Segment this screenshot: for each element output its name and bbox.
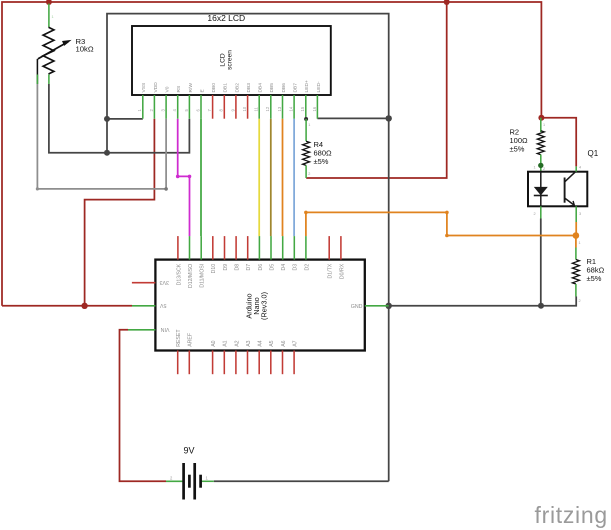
svg-text:A1: A1 [223,340,229,346]
wire battery negative to GND loop [214,480,389,482]
LCD pin 10 DB3 leg [247,95,249,119]
svg-text:D12/MISO: D12/MISO [188,264,194,288]
potentiometer R3 bottom leg pin2 [48,74,50,84]
node 5V junction VDD branch [81,303,87,309]
potentiometer R3 wiper arrowhead [62,40,72,46]
wire Q1 diode cathode to GND row [540,219,542,306]
svg-text:D2: D2 [304,264,310,271]
Arduino pin D11/MOSI leg [200,236,202,260]
svg-text:LED+: LED+ [304,80,310,93]
svg-text:11: 11 [254,106,259,111]
transistor Q1 outline [528,172,587,207]
Arduino pin VIN leg [128,329,155,331]
svg-text:LED-: LED- [316,81,322,93]
Arduino pin D2 leg [305,236,307,260]
wire LCD DB6 to Arduino D4 (orange) [282,119,284,236]
Arduino pin A6 leg (unconnected) [282,351,284,375]
node GND junction LED- [386,115,392,121]
svg-text:GND: GND [351,304,363,310]
wire LCD DB7 to Arduino D3 (blue) [293,119,295,236]
LCD pin 15 LED+ leg [305,95,307,119]
wire pot wiper to LCD V0 [37,84,166,189]
svg-text:1: 1 [52,15,54,19]
svg-text:14: 14 [289,106,294,111]
svg-text:D9: D9 [223,264,229,271]
svg-text:fritzing: fritzing [535,502,608,528]
LCD pin 1 VSS leg [142,95,144,119]
svg-text:A4: A4 [258,340,264,346]
resistor R1 top lead [575,248,577,260]
svg-text:10kΩ: 10kΩ [76,45,94,54]
svg-text:2: 2 [579,299,581,303]
Q1 collector leg [575,166,577,171]
Arduino pin A4 leg (unconnected) [258,351,260,375]
node GND junction diode cathode [538,303,544,309]
wire 5V rail top and left side [2,2,541,306]
svg-text:1: 1 [579,241,581,245]
LCD pin 5 R/W leg [188,95,190,119]
svg-text:A7: A7 [293,340,299,346]
svg-text:DB1: DB1 [223,83,229,93]
LCD pin 3 V0 leg [165,95,167,119]
battery positive leg [166,480,184,482]
resistor R2 bottom lead [540,155,542,172]
node 5V junction at potentiometer [46,0,52,5]
LCD pin 9 DB2 leg [235,95,237,119]
Arduino pin RESET leg (unconnected) [177,351,179,375]
Arduino pin A1 leg (unconnected) [223,351,225,375]
svg-text:1: 1 [308,123,310,127]
Arduino pin A7 leg (unconnected) [293,351,295,375]
svg-text:15: 15 [300,106,305,111]
wire LCD R/W and pot pin2 to GND loop [49,84,190,153]
svg-text:±5%: ±5% [314,157,329,166]
Arduino pin A0 leg (unconnected) [212,351,214,375]
svg-text:RESET: RESET [176,329,182,347]
svg-text:±5%: ±5% [587,274,602,283]
LCD pin 14 DB7 leg [293,95,295,119]
wire LCD E to Arduino D11/MOSI [200,119,202,236]
svg-text:DB5: DB5 [269,83,275,93]
wire orange node to R1 top [575,236,577,248]
Arduino pin GND leg [365,305,389,307]
node LED+ to R4 junction [304,117,308,121]
battery negative leg [201,480,214,482]
svg-text:DB7: DB7 [293,83,299,93]
Arduino pin D8 leg [235,236,237,260]
svg-text:D0/RX: D0/RX [339,263,345,279]
resistor R4 top lead [305,119,307,141]
node R2 bottom wire end [538,163,543,168]
wire Arduino D2 to Q1 emitter / R1 [306,212,576,236]
wire LCD LED- to GND loop [317,117,388,119]
svg-text:DB6: DB6 [281,83,287,93]
resistor R2 zigzag body [537,131,544,155]
svg-text:4: 4 [579,166,581,170]
resistor R4 zigzag body [303,141,310,165]
wire R4 bottom to 5V rail [306,2,447,178]
node 5V junction R2/Q1 [538,115,544,121]
node orange junction at R1/Q1 [573,232,580,239]
svg-text:1: 1 [534,166,536,170]
svg-text:RS: RS [176,85,182,93]
resistor R1 bottom lead [575,284,577,297]
wire Q1 emitter down to orange node [575,222,577,236]
node RS wire bend 1 [176,175,180,179]
potentiometer R3 top leg [48,4,50,28]
Arduino pin D1/TX leg [328,236,330,260]
wire 5V to Q1 collector [541,118,576,167]
resistor R2 top lead [540,118,542,132]
svg-text:D3: D3 [293,264,299,271]
svg-text:D6: D6 [258,264,264,271]
Q1 transistor emitter arrowhead [570,201,575,206]
svg-text:2: 2 [543,167,545,171]
battery short plate 2 [199,475,202,488]
svg-text:D8: D8 [235,264,241,271]
svg-text:3V3: 3V3 [160,279,169,285]
Arduino pin D10 leg [212,236,214,260]
svg-text:12: 12 [265,106,270,111]
svg-text:D10: D10 [211,264,217,274]
svg-text:A0: A0 [211,340,217,346]
svg-text:16: 16 [312,106,317,111]
svg-text:9V: 9V [183,446,194,456]
svg-text:VDD: VDD [153,82,159,93]
resistor R1 zigzag body [572,260,579,285]
svg-text:D11/MOSI: D11/MOSI [200,264,206,288]
svg-text:VSS: VSS [141,82,147,93]
node wiper wire bend [36,187,39,190]
Arduino pin 3V3 leg (unconnected) [132,282,156,284]
Arduino pin 5V leg [132,305,155,307]
svg-text:D5: D5 [269,264,275,271]
svg-text:5V: 5V [160,302,167,308]
Arduino pin A5 leg (unconnected) [270,351,272,375]
potentiometer R3 wiper leg pin3 [36,59,38,84]
LCD pin 6 E leg [200,95,202,119]
svg-text:2: 2 [308,172,310,176]
svg-text:AREF: AREF [188,333,194,347]
svg-text:D13/SCK: D13/SCK [176,263,182,285]
svg-text:VIN: VIN [160,326,169,332]
svg-text:D4: D4 [281,264,287,271]
Q1 diode vertical line [540,172,542,207]
svg-text:DB3: DB3 [246,83,252,93]
svg-text:DB2: DB2 [234,83,240,93]
wire LCD VSS to GND loop [107,118,143,120]
Arduino pin A2 leg (unconnected) [235,351,237,375]
Q1 transistor collector line [565,172,576,182]
LCD pin 11 DB4 leg [258,95,260,119]
svg-text:DB4: DB4 [258,83,264,93]
svg-text:10: 10 [242,106,247,111]
node GND junction R/W [104,150,110,156]
Arduino pin D4 leg [282,236,284,260]
Q1 diode triangle [534,187,548,196]
Arduino pin A3 leg (unconnected) [247,351,249,375]
Arduino pin D12/MISO leg [189,236,191,260]
battery long plate 1 [182,463,185,500]
LCD pin 13 DB6 leg [282,95,284,119]
LCD pin 12 DB5 leg [270,95,272,119]
Arduino pin D7 leg [247,236,249,260]
svg-text:R/W: R/W [188,83,194,93]
Arduino Nano outline [155,260,364,351]
svg-text:1: 1 [543,123,545,127]
Arduino pin D0/RX leg [340,236,342,260]
Q1 diode cathode bar [534,195,548,197]
Arduino pin D3 leg [293,236,295,260]
wire LCD DB4 to Arduino D6 (yellow) [258,119,260,236]
Arduino pin D6 leg [258,236,260,260]
wire 5V row to Arduino 5V [2,305,132,307]
Q1 diode cathode leg [540,206,542,218]
svg-text:2: 2 [534,212,536,216]
svg-text:D7: D7 [246,264,252,271]
svg-text:13: 13 [277,106,282,111]
wire LCD RS to Arduino D12/MISO [178,119,190,236]
svg-text:A3: A3 [246,340,252,346]
wire GND row Arduino to R1 [389,297,577,306]
LCD module 16x2 outline [132,26,331,95]
LCD pin 4 RS leg [177,95,179,119]
Q1 emitter leg [575,206,577,222]
svg-text:V0: V0 [165,86,171,92]
svg-text:16x2 LCD: 16x2 LCD [207,13,245,23]
svg-text:D1/TX: D1/TX [328,263,334,278]
node orange bend mid 2 [445,234,449,238]
node orange bend mid 1 [445,211,449,215]
svg-text:A6: A6 [281,340,287,346]
node RS wire bend 2 [188,175,192,179]
potentiometer R3 wiper arrow [38,42,68,59]
LCD pin 2 VDD leg [153,95,155,119]
svg-text:DB0: DB0 [211,83,217,93]
wire LCD VDD to 5V row [85,119,155,306]
Arduino pin AREF leg (unconnected) [188,351,190,375]
LCD pin 8 DB1 leg [223,95,225,119]
potentiometer R3 zigzag body [43,27,54,74]
svg-text:±5%: ±5% [510,145,525,154]
wire GND loop around LCD (VSS net) [107,14,389,482]
wire battery positive to Arduino VIN [120,330,167,482]
Q1 transistor base bar [564,178,566,203]
node V0 wire end [164,187,168,191]
potentiometer R3 wiper leg green [36,75,38,85]
battery long plate 2 [193,463,196,500]
Q1 transistor emitter line [565,198,575,206]
svg-text:A2: A2 [234,340,240,346]
svg-text:A5: A5 [269,340,275,346]
node GND junction VSS [104,116,110,122]
wire LCD DB5 to Arduino D5 (olive) [270,119,272,236]
LCD pin 16 LED- leg [316,95,318,119]
battery short plate 1 [188,475,191,488]
svg-text:3: 3 [579,212,581,216]
node GND junction Arduino GND row [386,303,392,309]
Arduino pin D9 leg [224,236,226,260]
wire LCD V0 down [165,119,167,189]
Arduino pin D13/SCK leg [177,236,179,260]
node 5V junction at R4 riser [444,0,450,5]
node orange bend at D2 [304,211,308,215]
Arduino pin D5 leg [270,236,272,260]
LCD pin 7 DB0 leg [212,95,214,119]
resistor R4 bottom lead [305,165,307,178]
svg-text:Q1: Q1 [588,149,599,158]
